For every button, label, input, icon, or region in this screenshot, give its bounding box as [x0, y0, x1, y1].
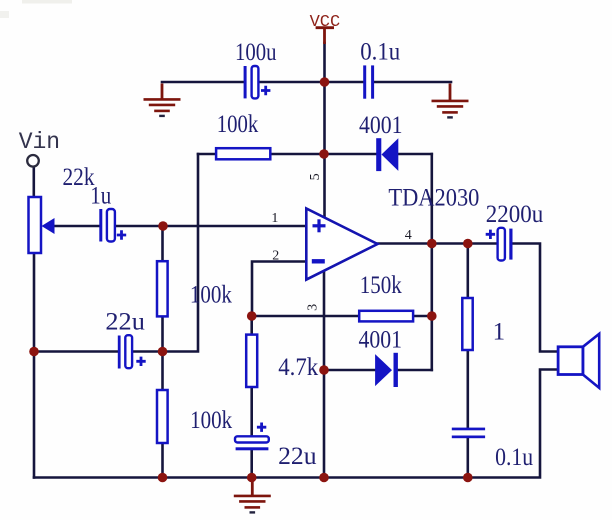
svg-text:100k: 100k: [190, 282, 232, 309]
svg-text:150k: 150k: [360, 272, 402, 299]
svg-text:VCC: VCC: [310, 13, 341, 32]
svg-text:4: 4: [405, 228, 412, 243]
svg-text:4.7k: 4.7k: [278, 354, 318, 381]
svg-text:2: 2: [272, 248, 279, 263]
svg-text:3: 3: [306, 304, 321, 311]
svg-text:4001: 4001: [359, 327, 403, 354]
svg-text:4001: 4001: [359, 112, 403, 139]
svg-text:1: 1: [271, 211, 278, 226]
svg-text:100u: 100u: [235, 39, 277, 66]
svg-text:0.1u: 0.1u: [495, 444, 533, 471]
svg-text:100k: 100k: [190, 407, 232, 434]
svg-text:22u: 22u: [105, 309, 145, 336]
svg-text:5: 5: [308, 173, 323, 180]
svg-text:Vin: Vin: [19, 129, 60, 155]
svg-text:1u: 1u: [90, 183, 111, 210]
svg-text:1: 1: [493, 318, 506, 345]
svg-text:TDA2030: TDA2030: [388, 185, 479, 212]
svg-text:22u: 22u: [278, 443, 317, 470]
svg-text:2200u: 2200u: [486, 201, 544, 228]
svg-text:0.1u: 0.1u: [360, 39, 400, 66]
svg-text:100k: 100k: [217, 111, 259, 138]
